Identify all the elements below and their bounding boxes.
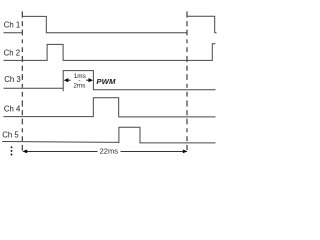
svg-text:22ms: 22ms (100, 147, 119, 156)
dimension arrow right (89, 78, 94, 82)
wire Ch1 baseline left of frame start (4, 32, 22, 34)
svg-text:Ch 5: Ch 5 (2, 131, 19, 140)
frame dashed line left (21, 11, 23, 150)
svg-text:Ch 3: Ch 3 (4, 75, 20, 84)
svg-text:Ch 2: Ch 2 (4, 49, 20, 58)
wire Ch3 baseline left (4, 87, 64, 89)
frame dashed line right (186, 11, 188, 150)
ellipsis dots (more channels) (11, 146, 13, 148)
wire Ch1 pulse top, fall, baseline to next frame (22, 16, 187, 32)
svg-text:2ms: 2ms (73, 83, 85, 90)
wire Ch3 pulse (rise with overshoot, top, fall, baseline right) (63, 71, 215, 92)
wire Ch2 waveform (4, 44, 216, 61)
wire Ch4 waveform (4, 98, 216, 117)
22ms dimension arrow right head (183, 150, 188, 154)
svg-text:Ch 4: Ch 4 (4, 104, 21, 113)
22ms arrow shaft right segment (121, 150, 184, 152)
wire Ch1 second pulse top, fall, stub (187, 16, 217, 33)
22ms dimension arrow left head (22, 150, 27, 154)
svg-text:Ch 1: Ch 1 (4, 20, 20, 29)
svg-text:PWM: PWM (96, 77, 116, 86)
wire Ch5 waveform (2, 127, 215, 143)
dimension arrow left (pulse width annotation) (64, 78, 69, 82)
22ms arrow shaft left segment (27, 150, 98, 152)
